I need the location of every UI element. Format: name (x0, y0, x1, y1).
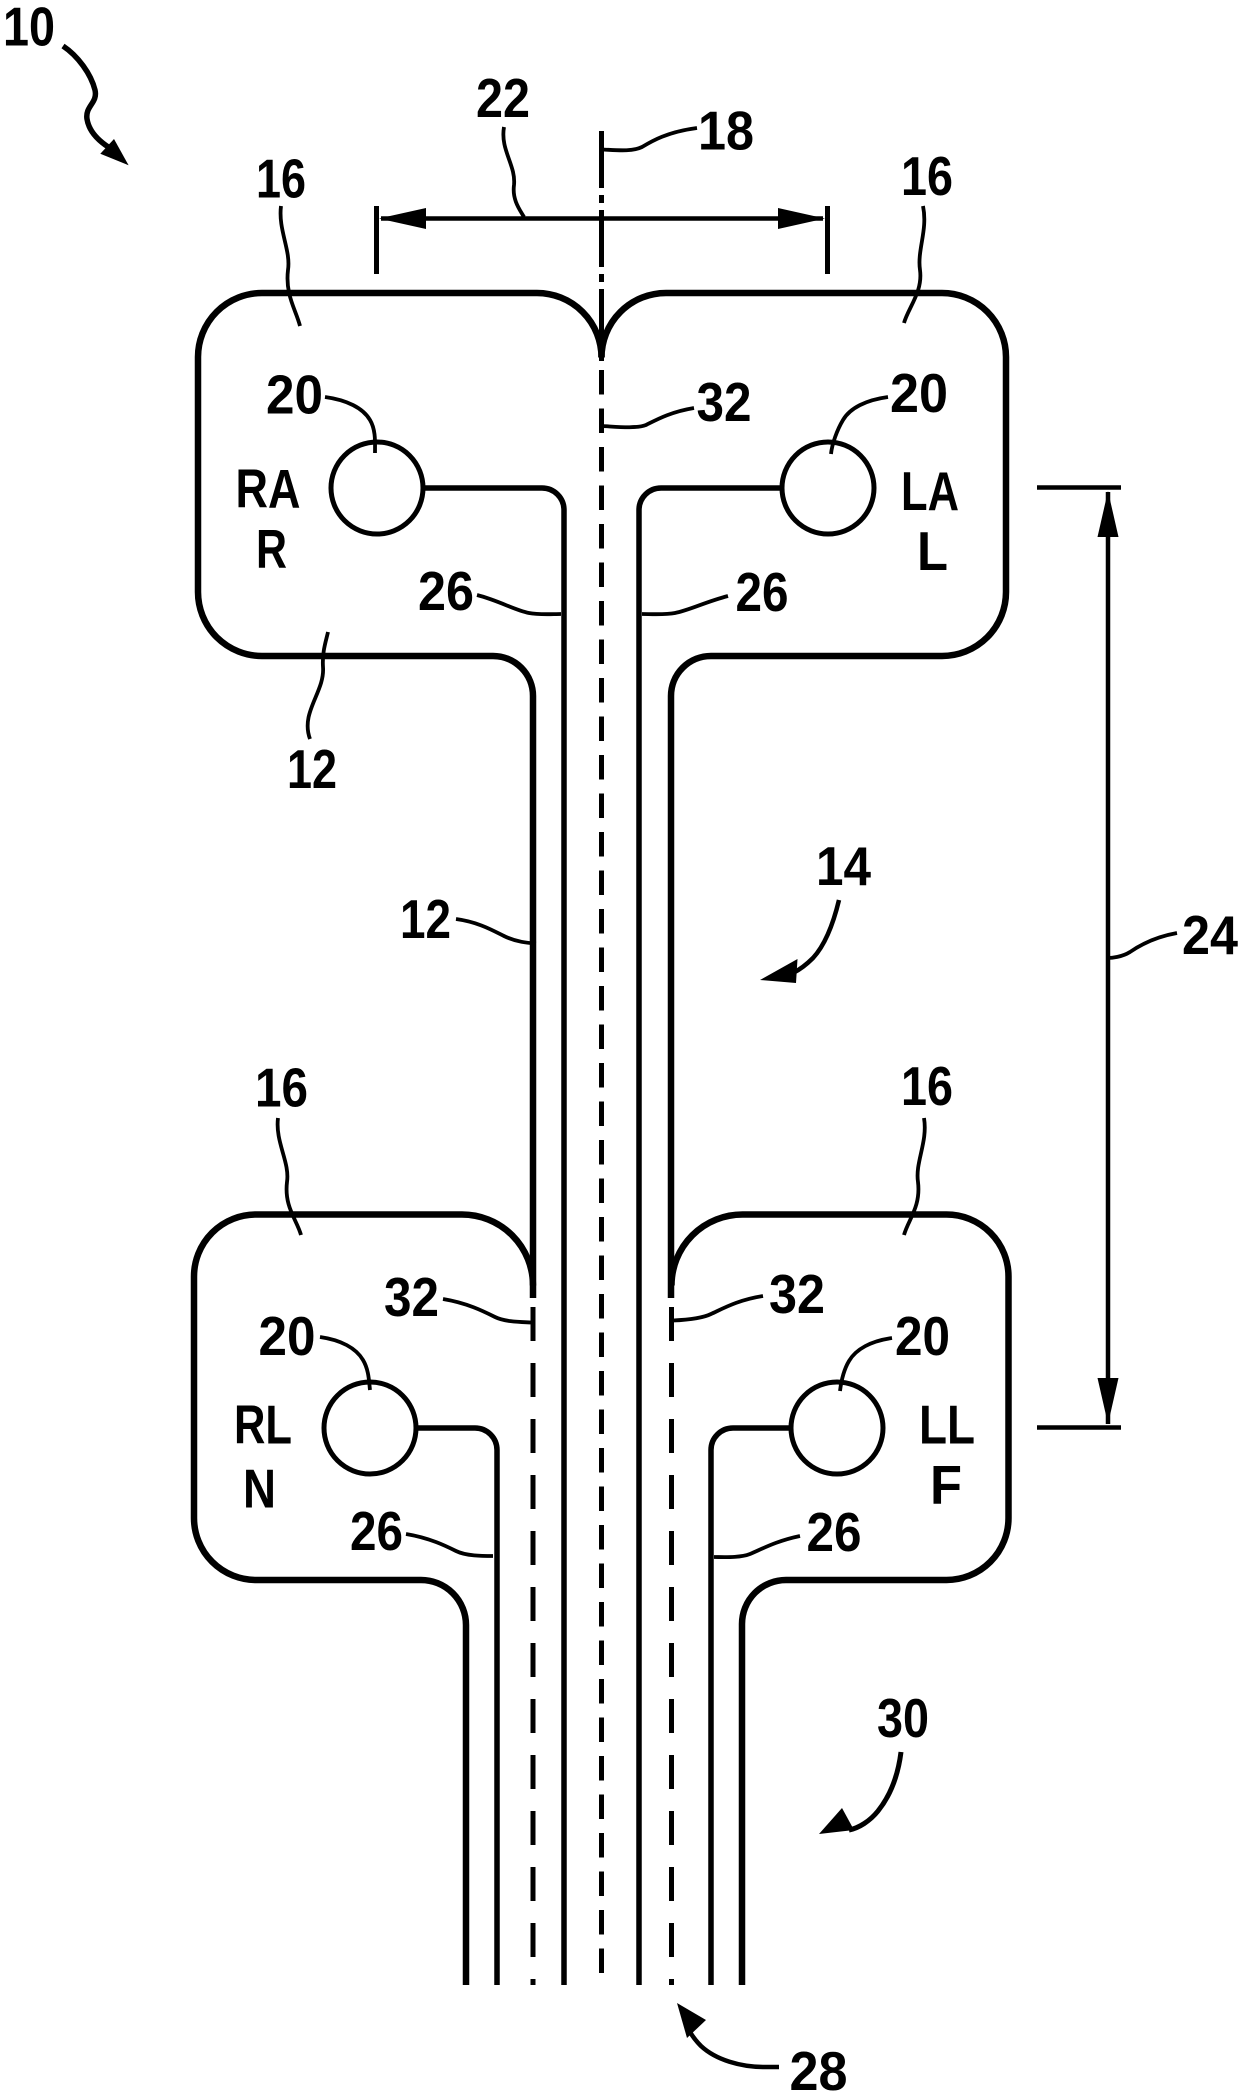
dimension 24 top tick (1037, 485, 1121, 490)
electrode 20 circle RL (324, 1382, 416, 1474)
leader arrow for 30 (849, 1752, 901, 1830)
leader for 12 mid (456, 919, 536, 944)
dimension 24 vertical line (1106, 492, 1111, 1424)
svg-text:26: 26 (807, 1501, 862, 1563)
svg-text:26: 26 (418, 560, 474, 622)
electrode pad 16 top-right (LA) outline with tab down to trunk (602, 293, 1007, 1298)
conductor 26 from LA electrode (639, 488, 782, 1985)
electrode pad 16 top-left (RA) outline with tab down to trunk (198, 293, 602, 1298)
dimension 24 down arrowhead (1098, 1378, 1119, 1424)
leader arrow for 10 (63, 46, 109, 148)
fold line 32 right dashed (669, 1307, 674, 1985)
leader for 24 (1107, 933, 1177, 958)
svg-text:F: F (930, 1454, 962, 1516)
dimension 22 arrow line (381, 216, 823, 221)
electrode 20 circle LL (791, 1382, 883, 1474)
svg-text:16: 16 (901, 1055, 953, 1117)
leader arrow for 14 (793, 900, 839, 973)
conductor 26 from RL electrode (416, 1428, 497, 1985)
leader arrow for 28 (684, 2019, 779, 2067)
conductor 26 from LL electrode (711, 1428, 791, 1985)
leader for 32 bottom-right (673, 1296, 763, 1321)
electrode pad 16 bottom-right (LL) outline with trunk edge 30 (672, 1215, 1009, 1986)
svg-text:24: 24 (1182, 904, 1238, 966)
leader for 20 bottom-left (320, 1337, 370, 1390)
leader for 26 bottom-right (714, 1536, 800, 1557)
leader for 16 top-right (904, 206, 924, 323)
svg-text:12: 12 (287, 738, 337, 800)
dimension 24 bottom tick (1037, 1425, 1121, 1430)
dimension 22 right arrowhead (778, 208, 825, 229)
electrode 20 circle LA (782, 442, 874, 534)
svg-text:16: 16 (255, 1057, 308, 1119)
dimension 22 right extension tick (825, 206, 830, 274)
leader for 20 top-right (831, 397, 888, 454)
svg-text:RL: RL (234, 1394, 292, 1456)
svg-text:32: 32 (769, 1263, 825, 1325)
svg-text:RA: RA (236, 458, 301, 520)
svg-text:L: L (917, 520, 948, 582)
svg-text:30: 30 (877, 1687, 929, 1749)
leader for 32 top (602, 408, 695, 427)
dimension 22 left arrowhead (379, 208, 426, 229)
svg-text:28: 28 (790, 2040, 848, 2094)
svg-text:20: 20 (266, 364, 323, 426)
svg-text:N: N (243, 1458, 276, 1520)
svg-text:R: R (256, 518, 287, 580)
svg-text:LL: LL (919, 1394, 975, 1456)
svg-text:LA: LA (901, 460, 959, 522)
centerline 18 dash-dot upper segment (599, 131, 604, 362)
svg-text:14: 14 (816, 835, 871, 897)
svg-text:16: 16 (256, 148, 306, 210)
leader for 26 top-left (477, 595, 561, 614)
leader for 12 upper (308, 632, 328, 739)
leader for 26 top-right (642, 596, 728, 614)
leader for 32 bottom-left (443, 1299, 531, 1323)
leader for 16 top-left (281, 206, 300, 326)
electrode 20 circle RA (331, 442, 423, 534)
leader for 16 bottom-left (278, 1118, 301, 1235)
leader for 20 bottom-right (840, 1338, 892, 1391)
leader for 16 bottom-right (904, 1118, 925, 1235)
svg-text:26: 26 (350, 1500, 403, 1562)
leader for 26 bottom-left (406, 1534, 493, 1556)
dimension 24 up arrowhead (1098, 491, 1119, 537)
svg-text:10: 10 (3, 0, 55, 58)
conductor 26 from RA electrode (423, 488, 564, 1985)
svg-text:16: 16 (901, 145, 953, 207)
leader for 20 top-left (325, 397, 375, 453)
svg-text:22: 22 (476, 67, 530, 129)
svg-text:32: 32 (384, 1266, 439, 1328)
svg-text:32: 32 (697, 371, 752, 433)
svg-text:20: 20 (895, 1305, 950, 1367)
svg-text:20: 20 (890, 362, 948, 424)
fold line 32 left dashed (531, 1307, 536, 1985)
svg-text:18: 18 (698, 100, 754, 162)
dimension 22 left extension tick (374, 206, 379, 274)
centerline 18 dashed lower segment (599, 370, 604, 1985)
svg-text:12: 12 (400, 888, 451, 950)
leader for 22 (503, 127, 524, 217)
svg-text:26: 26 (736, 561, 789, 623)
electrode pad 16 bottom-left (RL) outline with trunk edge 30 (194, 1215, 533, 1986)
svg-text:20: 20 (259, 1305, 316, 1367)
leader for 18 (602, 128, 698, 150)
